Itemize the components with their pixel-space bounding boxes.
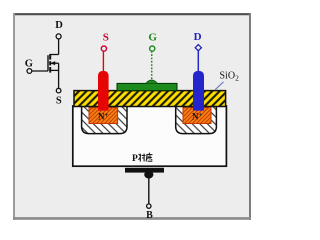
wire B <box>148 178 150 204</box>
body arrowhead <box>50 61 55 65</box>
N+ well tub left <box>82 106 127 134</box>
N+ region right <box>183 108 211 124</box>
channel segment drain <box>49 54 51 60</box>
terminal circle G (cross-section) <box>150 46 155 51</box>
panel border top <box>13 13 251 15</box>
panel border bottom <box>13 217 251 220</box>
wire gate lead <box>32 70 48 72</box>
terminal circle S (symbol source) <box>56 88 61 93</box>
wire source lead <box>50 69 58 71</box>
source electrode (red capsule) <box>98 71 109 111</box>
N+ well tub right <box>176 106 217 134</box>
channel segment source <box>49 67 51 73</box>
hand-drawn 衬 <box>139 154 146 162</box>
SiO2 pointer line <box>215 82 224 90</box>
panel interior <box>13 13 251 220</box>
svg-text:G: G <box>25 59 33 70</box>
svg-text:S: S <box>103 31 109 43</box>
gate electrode green bar <box>117 83 177 90</box>
terminal circle B <box>147 204 151 208</box>
wire body to source rail <box>58 63 60 88</box>
N+ region left <box>89 108 118 124</box>
P substrate box <box>73 106 227 166</box>
gate wire green dashed <box>151 51 153 81</box>
wire S red <box>102 51 104 72</box>
label P substrate (P衬底) <box>132 153 153 164</box>
svg-text:B: B <box>146 210 153 221</box>
svg-text:P: P <box>132 154 138 164</box>
SiO2 oxide layer <box>74 91 226 107</box>
hand-drawn 底 <box>146 153 152 162</box>
panel border right <box>249 13 251 220</box>
panel border left <box>13 13 15 220</box>
gate bar <box>47 55 49 71</box>
drain electrode (blue capsule) <box>193 71 204 111</box>
body arrow wire <box>51 62 59 64</box>
gate contact bump <box>146 80 158 84</box>
terminal circle G (symbol gate) <box>27 69 32 74</box>
terminal circle S (cross-section) <box>101 46 106 51</box>
svg-text:S: S <box>56 96 62 107</box>
wire drain vertical <box>58 39 60 55</box>
svg-text:G: G <box>148 32 157 44</box>
body contact bar <box>125 168 164 173</box>
svg-text:D: D <box>55 20 63 31</box>
svg-text:D: D <box>194 31 202 43</box>
channel segment body <box>49 61 51 65</box>
body contact blob <box>144 171 153 179</box>
wire D blue <box>197 51 199 72</box>
terminal diamond D (cross-section) <box>195 45 201 51</box>
wire drain lead <box>50 54 58 56</box>
terminal circle D <box>56 34 61 39</box>
